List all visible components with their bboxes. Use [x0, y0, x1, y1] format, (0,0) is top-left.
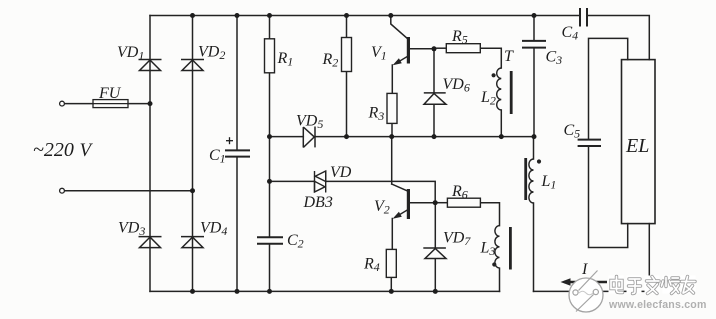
node bottom rail / VD4 — [190, 289, 195, 294]
diode VD5 — [303, 127, 315, 148]
transistor V1 emitter arrow — [393, 58, 402, 65]
svg-text:www.elecfans.com: www.elecfans.com — [608, 299, 707, 311]
transistor V2 emitter arrow — [393, 212, 402, 219]
transistor V2 — [395, 189, 409, 219]
capacitor C3 — [522, 41, 546, 48]
wire fuse to bridge node — [128, 103, 150, 105]
inductor L2 winding — [497, 68, 502, 110]
wire VD7 column — [434, 203, 436, 247]
wire V1 emitter to R3 — [391, 65, 393, 93]
node bottom rail / C2 — [267, 289, 272, 294]
wire C3 column — [533, 16, 535, 41]
svg-text:~220: ~220 — [33, 139, 74, 161]
node top rail / R2 — [344, 13, 349, 18]
svg-text:DB3: DB3 — [303, 194, 333, 211]
inductor L3 core — [509, 227, 512, 270]
wire L2 bottom to midpoint rail — [500, 110, 502, 137]
node midpoint rail / R1 — [267, 134, 272, 139]
lamp EL tube — [622, 60, 656, 224]
wire AC live input to fuse — [65, 103, 94, 105]
svg-text:VD: VD — [330, 164, 352, 181]
capacitor C5 — [578, 140, 601, 146]
inductor L1 winding — [529, 159, 534, 203]
wire lamp top-left pin to C5 — [589, 38, 628, 139]
wire top rail — [150, 15, 580, 17]
glyph 2 zi — [629, 279, 641, 294]
wire L3 bottom to bottom rail — [499, 268, 501, 291]
wire lamp loop bottom — [534, 290, 650, 292]
svg-text:EL: EL — [625, 135, 649, 157]
wire R5 to L2 — [434, 47, 446, 49]
L3 phase dot — [492, 262, 496, 266]
wire DB3 trigger row — [270, 180, 315, 182]
transistor V1 — [395, 37, 409, 64]
svg-text:T: T — [504, 48, 514, 65]
node bottom rail / C1 — [235, 289, 240, 294]
diode VD1 — [139, 60, 162, 71]
wire C1 column — [236, 16, 238, 151]
resistor R5 — [446, 44, 480, 53]
wire C4 right to lamp top-right pin — [587, 16, 649, 60]
node V2 base — [433, 200, 438, 205]
wire V1 collector — [391, 16, 408, 39]
label C1 plus — [226, 137, 233, 144]
glyph 5 you — [682, 277, 696, 294]
wire midpoint rail with VD5 — [270, 136, 304, 138]
node bottom rail / R4 — [389, 289, 394, 294]
L1 phase dot — [537, 159, 541, 163]
watermark logo disc — [569, 271, 603, 313]
wire second bridge column VD2/VD4 — [192, 16, 194, 292]
resistor R2 — [342, 38, 352, 72]
node midpoint rail / R3+V2 — [389, 134, 394, 139]
node top rail / VD2 — [190, 13, 195, 18]
L2 phase dot — [492, 73, 496, 77]
wire V2 emitter to R4 — [391, 219, 393, 250]
svg-text:FU: FU — [98, 85, 122, 102]
resistor R4 — [386, 249, 396, 277]
node fuse to bridge — [148, 101, 153, 106]
node top rail / R1 — [267, 13, 272, 18]
AC terminal top — [60, 101, 65, 106]
current arrow I — [564, 281, 607, 283]
wire left bridge column VD1/VD3 — [149, 16, 151, 292]
wire V2 collector from midpoint — [391, 137, 393, 184]
diode VD2 — [181, 60, 204, 71]
inductor L3 winding — [495, 226, 500, 268]
diac VD DB3 — [315, 171, 326, 193]
inductor L1 core — [524, 158, 527, 200]
inductor L2 core — [510, 71, 513, 114]
resistor R6 — [447, 198, 480, 207]
glyph 3 fa — [647, 277, 660, 294]
node V1 base — [432, 46, 437, 51]
node midpoint rail / L2 — [499, 134, 504, 139]
diode VD4 — [181, 237, 204, 248]
node midpoint rail / C3+L1 — [532, 134, 537, 139]
wire bottom rail (negative bus) — [150, 290, 500, 292]
resistor R3 — [387, 93, 397, 123]
wire lamp bottom-right pin — [648, 224, 650, 292]
diode VD3 — [139, 237, 162, 248]
wire L1 bottom to lamp return — [533, 203, 535, 291]
node bottom rail / VD7 — [433, 289, 438, 294]
fuse FU — [93, 100, 128, 108]
wire R3 to midpoint rail — [391, 124, 393, 137]
node top rail / V1 collector — [388, 13, 393, 18]
node midpoint rail / VD6 — [432, 134, 437, 139]
capacitor C1 electrolytic — [225, 150, 250, 156]
svg-text:I: I — [581, 261, 588, 278]
diode VD7 — [423, 248, 446, 259]
wire R1/C2 column — [269, 16, 271, 39]
wire R4 to bottom rail — [390, 277, 392, 291]
wire R2 column — [346, 16, 348, 38]
glyph 1 dian — [611, 277, 623, 293]
wire V2 base lead — [410, 202, 435, 204]
diode VD6 — [424, 93, 446, 104]
capacitor C2 — [257, 237, 283, 243]
glyph 4 shao — [662, 278, 680, 294]
wire V1 base lead — [410, 48, 434, 50]
wire VD6 column — [433, 49, 435, 93]
wire R6 to L3 — [435, 202, 447, 204]
node DB3 row / R1 column — [267, 179, 272, 184]
resistor R1 — [265, 39, 275, 73]
node AC neutral to bridge — [190, 188, 195, 193]
node midpoint rail / R2 — [344, 134, 349, 139]
capacitor C4 — [580, 8, 587, 27]
wire C5 bottom to lamp bottom-left pin — [589, 146, 628, 247]
AC terminal bottom — [60, 188, 65, 193]
watermark chinese characters — [609, 276, 696, 294]
wire AC neutral input — [65, 190, 193, 192]
wire midpoint to L1 — [533, 137, 535, 159]
node top rail / C1 — [235, 13, 240, 18]
node top rail / C3 — [532, 13, 537, 18]
